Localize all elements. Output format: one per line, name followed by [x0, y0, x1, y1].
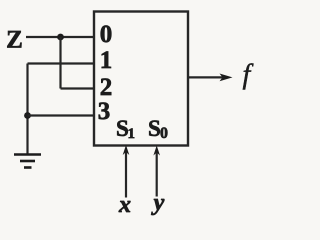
wire ground riser [26, 64, 28, 154]
pin label S1 [116, 116, 135, 142]
arrowhead output f [220, 74, 233, 82]
wire select x [125, 152, 127, 198]
wire to pin 2 [61, 87, 95, 89]
wire output f [188, 76, 223, 78]
arrowhead select y [153, 146, 160, 156]
svg-text:1: 1 [128, 126, 136, 142]
node junction at pin 3 branch [24, 112, 31, 119]
svg-text:x: x [118, 192, 131, 218]
svg-text:3: 3 [98, 98, 111, 125]
wire to pin 1 [28, 62, 95, 64]
ground symbol [14, 155, 41, 168]
wire select y [156, 152, 158, 197]
multiplexer U1 body [94, 12, 188, 146]
svg-text:Z: Z [6, 27, 23, 54]
wire Z to pin 0 [26, 36, 94, 38]
svg-text:S: S [148, 116, 161, 141]
svg-text:2: 2 [100, 74, 113, 101]
svg-text:0: 0 [160, 125, 168, 142]
svg-text:y: y [151, 190, 165, 216]
pin label S0 [148, 116, 168, 142]
wire to pin 3 [28, 114, 95, 116]
arrowhead select x [123, 145, 130, 155]
svg-text:0: 0 [100, 21, 113, 48]
node junction on Z wire [57, 34, 64, 41]
wire junction down to pin 2 level [59, 37, 61, 89]
svg-text:1: 1 [100, 47, 113, 74]
